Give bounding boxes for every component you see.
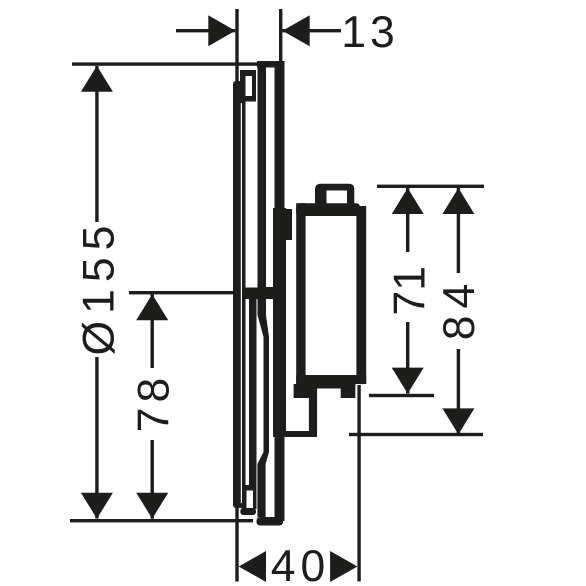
svg-text:71: 71	[386, 266, 435, 316]
svg-text:13: 13	[341, 8, 399, 57]
svg-text:40: 40	[271, 542, 331, 586]
svg-text:Ø155: Ø155	[75, 219, 124, 356]
svg-text:84: 84	[435, 277, 484, 341]
svg-text:78: 78	[130, 373, 179, 433]
